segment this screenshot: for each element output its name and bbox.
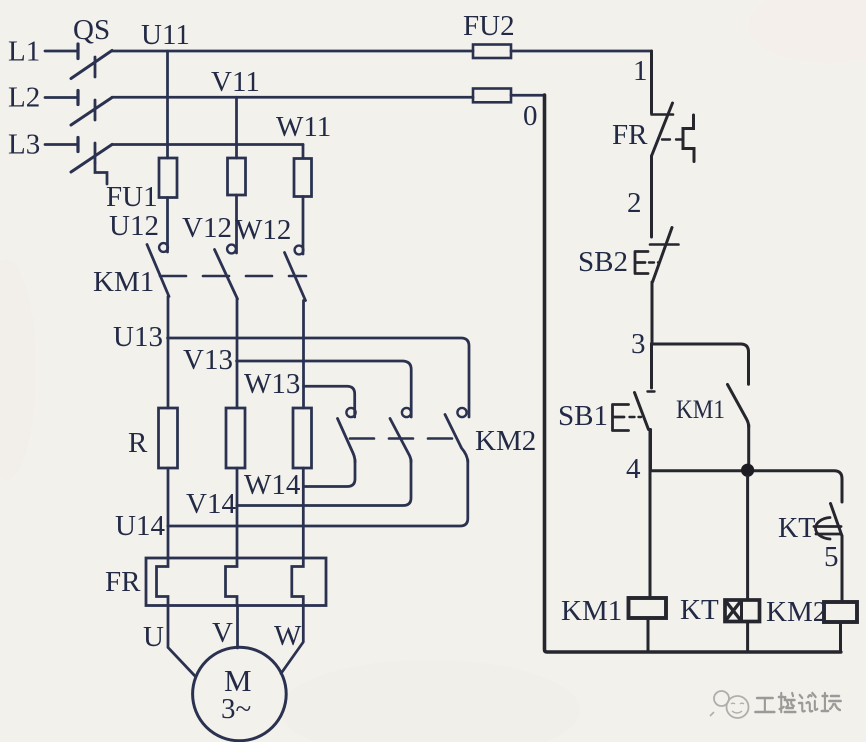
svg-text:V11: V11: [211, 66, 260, 98]
svg-text:FR: FR: [105, 566, 141, 598]
svg-text:V: V: [212, 617, 233, 649]
svg-text:QS: QS: [73, 14, 110, 46]
svg-text:L3: L3: [8, 129, 40, 161]
svg-text:5: 5: [824, 541, 839, 573]
svg-text:R: R: [128, 427, 148, 459]
svg-text:KM1: KM1: [93, 266, 154, 298]
svg-text:FU2: FU2: [463, 10, 515, 42]
svg-text:2: 2: [627, 187, 642, 219]
svg-text:U14: U14: [115, 510, 165, 542]
svg-text:V14: V14: [186, 488, 236, 520]
svg-text:KM1: KM1: [676, 395, 725, 424]
svg-text:L2: L2: [8, 82, 40, 114]
svg-text:0: 0: [523, 100, 538, 132]
svg-text:KM1: KM1: [561, 595, 622, 627]
svg-text:KT: KT: [778, 513, 815, 544]
svg-text:U11: U11: [141, 19, 190, 51]
svg-text:U13: U13: [113, 321, 163, 353]
svg-text:W: W: [274, 620, 302, 652]
svg-text:KT: KT: [680, 594, 719, 626]
svg-text:W12: W12: [235, 214, 291, 246]
svg-text:U12: U12: [109, 210, 159, 242]
svg-text:W11: W11: [276, 111, 331, 143]
svg-text:W14: W14: [244, 469, 301, 501]
svg-text:FR: FR: [612, 119, 648, 151]
svg-text:V12: V12: [182, 212, 232, 244]
svg-text:SB1: SB1: [558, 400, 608, 432]
svg-text:V13: V13: [183, 344, 233, 376]
svg-text:3~: 3~: [221, 693, 251, 725]
svg-text:KM2: KM2: [766, 596, 827, 628]
svg-text:SB2: SB2: [578, 246, 628, 278]
svg-text:W13: W13: [244, 368, 300, 400]
svg-text:1: 1: [633, 55, 648, 87]
svg-text:KM2: KM2: [475, 425, 536, 457]
svg-text:3: 3: [631, 328, 646, 360]
svg-text:4: 4: [626, 453, 641, 485]
svg-text:FU1: FU1: [106, 181, 158, 213]
svg-text:U: U: [143, 621, 164, 653]
svg-text:L1: L1: [8, 36, 40, 68]
